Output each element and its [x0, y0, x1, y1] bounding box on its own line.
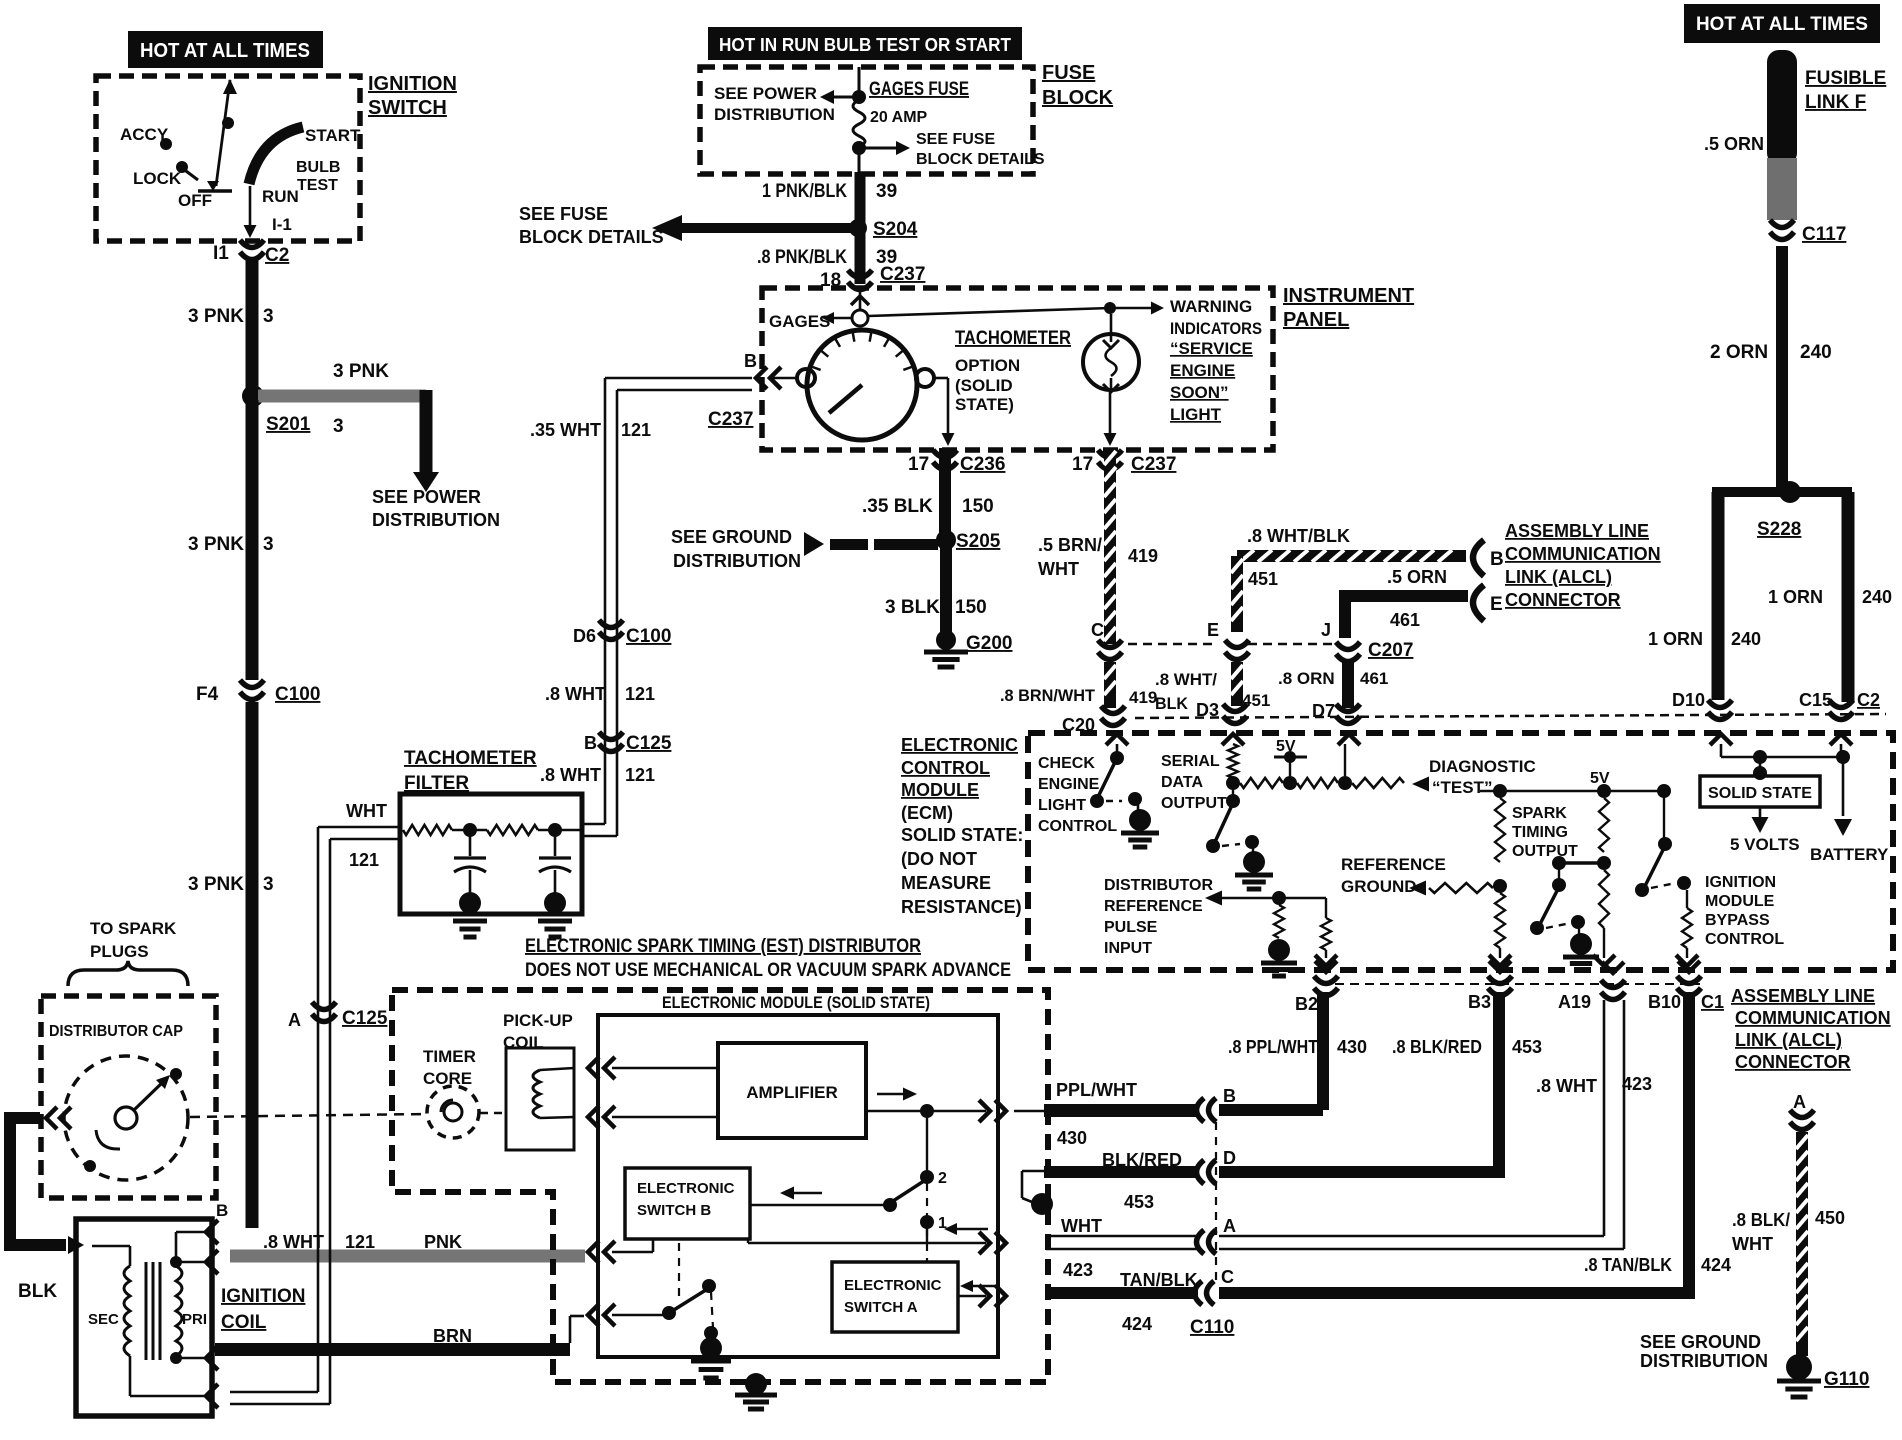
splice S228 bar: [1712, 487, 1852, 497]
connector C C110: [1195, 1281, 1203, 1305]
wire BLK high tension lead: [10, 1118, 66, 1245]
svg-text:3: 3: [263, 874, 274, 895]
svg-text:3: 3: [333, 416, 344, 437]
switch 1 dot: [920, 1215, 934, 1229]
distributor cap circle: [64, 1056, 188, 1180]
svg-text:39: 39: [876, 181, 897, 202]
svg-text:B: B: [584, 733, 597, 753]
svg-text:CONNECTOR: CONNECTOR: [1735, 1052, 1851, 1072]
coil terminal 2: [206, 1250, 218, 1274]
svg-text:I1: I1: [213, 243, 229, 264]
wire .8 BLK/WHT hatched: [1796, 1132, 1808, 1356]
svg-text:121: 121: [625, 684, 655, 704]
module input arrows BRN: [588, 1304, 599, 1326]
svg-text:BLK: BLK: [1155, 694, 1189, 713]
fuse node top: [852, 90, 866, 104]
pickup connector arrows bottom: [588, 1106, 599, 1128]
switch B arrow: [790, 1192, 822, 1195]
svg-text:WHT: WHT: [1732, 1234, 1773, 1254]
svg-text:D: D: [1223, 1148, 1236, 1168]
svg-text:A: A: [1223, 1216, 1236, 1236]
serial data ground: [1252, 848, 1254, 852]
ECM bottom connector dashed line: [1335, 983, 1700, 985]
filter ground dot 2: [544, 892, 566, 914]
svg-text:S228: S228: [1757, 519, 1801, 540]
svg-text:240: 240: [1800, 342, 1832, 363]
svg-text:121: 121: [625, 765, 655, 785]
C110 dashed line: [1215, 1122, 1217, 1284]
warning arrow: [1110, 307, 1152, 310]
svg-text:BATTERY: BATTERY: [1810, 845, 1889, 864]
cap contact dot lower: [84, 1160, 96, 1172]
svg-text:121: 121: [349, 850, 379, 870]
svg-text:.5 BRN/: .5 BRN/: [1038, 535, 1102, 555]
svg-text:(DO NOT: (DO NOT: [901, 849, 977, 869]
svg-text:PULSE: PULSE: [1104, 919, 1158, 936]
svg-text:B: B: [216, 1201, 228, 1220]
filter ground dot 1: [459, 892, 481, 914]
ECM pin B2 riser: [1325, 898, 1327, 918]
warning node dot: [1104, 302, 1116, 314]
instrument panel box: [762, 288, 1273, 450]
svg-text:OFF: OFF: [178, 191, 212, 210]
ECM box: [1028, 733, 1893, 970]
svg-text:CONTROL: CONTROL: [901, 758, 990, 778]
svg-text:BLOCK DETAILS: BLOCK DETAILS: [519, 227, 664, 247]
ELECTRONIC SWITCH A box: [832, 1262, 958, 1332]
wire 3 PNK from ignition switch: [246, 258, 259, 392]
svg-text:C110: C110: [1190, 1317, 1234, 1338]
svg-text:OUTPUT: OUTPUT: [1512, 843, 1578, 860]
svg-text:1 ORN: 1 ORN: [1768, 587, 1823, 607]
svg-text:HOT IN RUN BULB TEST OR START: HOT IN RUN BULB TEST OR START: [719, 35, 1011, 55]
svg-text:FUSIBLE: FUSIBLE: [1805, 68, 1886, 89]
AMPLIFIER box: [718, 1043, 866, 1138]
svg-text:.8 ORN: .8 ORN: [1278, 669, 1335, 688]
svg-text:STATE): STATE): [955, 395, 1014, 414]
coil terminal 4: [206, 1384, 218, 1408]
svg-text:3: 3: [263, 534, 274, 555]
service engine soon bulb: [1083, 334, 1139, 390]
EST case ground: [745, 1373, 767, 1395]
timer core symbol: [427, 1086, 479, 1138]
distributor cap box: [41, 996, 216, 1198]
wire PNK (speckled): [230, 1250, 585, 1263]
svg-text:C: C: [1221, 1267, 1234, 1287]
svg-text:TO SPARK: TO SPARK: [90, 919, 177, 938]
module output arrows WHT: [979, 1232, 990, 1254]
svg-text:SWITCH B: SWITCH B: [637, 1202, 711, 1219]
svg-text:CONNECTOR: CONNECTOR: [1505, 590, 1621, 610]
svg-text:C2: C2: [265, 245, 289, 266]
svg-text:SWITCH A: SWITCH A: [844, 1299, 918, 1316]
check engine light switch: [1097, 758, 1117, 799]
svg-text:423: 423: [1063, 1260, 1093, 1280]
svg-text:SEE POWER: SEE POWER: [372, 487, 481, 507]
svg-text:G200: G200: [966, 633, 1012, 654]
svg-text:INDICATORS: INDICATORS: [1170, 319, 1262, 338]
svg-text:COIL: COIL: [221, 1312, 267, 1333]
svg-text:430: 430: [1337, 1037, 1367, 1057]
svg-text:CHECK: CHECK: [1038, 755, 1095, 772]
svg-text:E: E: [1207, 620, 1219, 640]
svg-text:SEE FUSE: SEE FUSE: [916, 131, 995, 148]
svg-text:3: 3: [263, 306, 274, 327]
wire 3 PNK branch to power distribution: [258, 390, 426, 403]
svg-text:SOLID STATE: SOLID STATE: [1708, 785, 1812, 802]
svg-text:.5 ORN: .5 ORN: [1387, 567, 1447, 587]
svg-text:REFERENCE: REFERENCE: [1341, 855, 1446, 874]
svg-text:ASSEMBLY LINE: ASSEMBLY LINE: [1505, 521, 1649, 541]
svg-text:3 BLK: 3 BLK: [885, 597, 940, 618]
svg-text:DISTRIBUTION: DISTRIBUTION: [372, 510, 500, 530]
svg-text:B3: B3: [1468, 992, 1491, 1012]
ignition coil box: [76, 1219, 212, 1416]
coil SEC winding: [124, 1266, 130, 1356]
serial data switch: [1226, 794, 1240, 808]
svg-text:17: 17: [1072, 454, 1093, 475]
spark timing switch: [1559, 861, 1604, 865]
svg-text:“TEST”: “TEST”: [1432, 778, 1492, 797]
ELECTRONIC SWITCH B box: [625, 1168, 750, 1239]
amplifier input lines: [612, 1067, 718, 1070]
svg-text:A19: A19: [1558, 992, 1591, 1012]
ground G200: [936, 630, 956, 650]
ECM connector row dashed line: [1135, 714, 1886, 718]
svg-text:C237: C237: [1131, 454, 1176, 475]
svg-text:.8 PNK/BLK: .8 PNK/BLK: [757, 247, 847, 268]
svg-text:RESISTANCE): RESISTANCE): [901, 897, 1022, 917]
WHT line in module: [747, 1239, 749, 1243]
BRN line to ground switch: [612, 1314, 664, 1317]
svg-text:3 PNK: 3 PNK: [333, 361, 389, 382]
wire WHT double: [1046, 1235, 1198, 1238]
ignition switch box: [96, 76, 360, 241]
svg-text:450: 450: [1815, 1208, 1845, 1228]
wire 1 ORN right: [1842, 492, 1855, 702]
svg-text:COMMUNICATION: COMMUNICATION: [1735, 1008, 1891, 1028]
wire 1 ORN left: [1712, 492, 1725, 700]
svg-text:A: A: [1793, 1092, 1806, 1112]
svg-text:MODULE: MODULE: [1705, 893, 1775, 910]
svg-text:TACHOMETER: TACHOMETER: [955, 328, 1071, 349]
wire .35 BLK: [939, 448, 951, 538]
tachometer filter box: [400, 794, 582, 914]
svg-text:121: 121: [345, 1232, 375, 1252]
wire BRN thick: [215, 1343, 570, 1356]
svg-text:424: 424: [1701, 1255, 1731, 1275]
filter node 1: [463, 823, 477, 837]
wire .8 BLK/RED to B3: [1219, 1166, 1505, 1178]
see ground arrow: [804, 532, 824, 556]
svg-text:5V: 5V: [1590, 770, 1610, 787]
svg-text:IGNITION: IGNITION: [368, 73, 457, 95]
svg-text:PLUGS: PLUGS: [90, 942, 149, 961]
connector C117: [1770, 220, 1794, 228]
svg-text:DATA: DATA: [1161, 774, 1204, 791]
svg-text:SOON”: SOON”: [1170, 383, 1229, 402]
svg-text:IGNITION: IGNITION: [1705, 874, 1776, 891]
svg-text:ELECTRONIC: ELECTRONIC: [637, 1180, 735, 1197]
gauge right boss: [916, 369, 934, 387]
wire BLK/RED: [1044, 1166, 1198, 1178]
svg-text:SOLID STATE:: SOLID STATE:: [901, 825, 1023, 845]
EST distributor box: [392, 990, 1048, 1382]
svg-text:(ECM): (ECM): [901, 803, 953, 823]
svg-text:240: 240: [1862, 587, 1892, 607]
wire .8 TAN/BLK to B10: [1219, 1287, 1695, 1299]
coil PRI winding: [176, 1266, 182, 1356]
svg-text:DOES NOT USE MECHANICAL OR VAC: DOES NOT USE MECHANICAL OR VACUUM SPARK …: [525, 960, 1011, 981]
svg-text:121: 121: [621, 420, 651, 440]
svg-text:B: B: [1490, 549, 1504, 570]
svg-text:.8 PPL/WHT: .8 PPL/WHT: [1228, 1037, 1318, 1057]
svg-text:SEE GROUND: SEE GROUND: [671, 527, 792, 547]
svg-text:C236: C236: [960, 454, 1005, 475]
wire WHT 121 filter left leg: [318, 826, 400, 829]
svg-text:.8 WHT/BLK: .8 WHT/BLK: [1247, 526, 1350, 546]
svg-text:.8 TAN/BLK: .8 TAN/BLK: [1584, 1255, 1672, 1275]
svg-text:CONTROL: CONTROL: [1038, 818, 1117, 835]
coil terminal 3: [206, 1346, 218, 1370]
svg-text:D10: D10: [1672, 690, 1705, 710]
svg-text:423: 423: [1622, 1074, 1652, 1094]
splice S204: [849, 219, 867, 237]
rotor: [115, 1107, 137, 1129]
svg-text:C237: C237: [708, 409, 753, 430]
5V spark line: [1480, 790, 1664, 793]
wire .8 WHT to A19: [1219, 1235, 1604, 1238]
svg-text:C237: C237: [880, 264, 925, 285]
wire .35 WHT 121 from tach to filter: [605, 377, 752, 380]
wire TAN/BLK: [1049, 1287, 1198, 1299]
fuse block box: [700, 67, 1033, 174]
fuse feed arrow left: [832, 96, 858, 99]
svg-text:BLOCK DETAILS: BLOCK DETAILS: [916, 151, 1045, 168]
switch blade to switch B: [890, 1179, 927, 1203]
svg-text:419: 419: [1129, 688, 1157, 707]
svg-text:.5 ORN: .5 ORN: [1704, 134, 1764, 154]
svg-text:HOT AT ALL TIMES: HOT AT ALL TIMES: [1696, 14, 1868, 35]
svg-text:C1: C1: [1701, 992, 1724, 1012]
dashed line timer core to pickup: [480, 1112, 506, 1115]
svg-text:BYPASS: BYPASS: [1705, 912, 1770, 929]
distributor reference pulse arrow: [1205, 891, 1222, 906]
filter capacitor 1: [469, 830, 472, 856]
wire .5 ORN to ALCL E: [1351, 590, 1468, 602]
svg-text:BLK: BLK: [18, 1281, 57, 1302]
svg-text:TAN/BLK: TAN/BLK: [1120, 1270, 1198, 1290]
svg-text:INPUT: INPUT: [1104, 940, 1152, 957]
dashed line E to J: [1248, 643, 1332, 646]
svg-text:PRI: PRI: [182, 1311, 207, 1328]
wire .8 WHT/BLK hatched to ALCL B: [1237, 550, 1466, 562]
svg-text:S205: S205: [956, 531, 1001, 552]
header box HOT AT ALL TIMES (left): [128, 31, 323, 68]
wire PPL/WHT: [1014, 1110, 1044, 1113]
svg-text:LOCK: LOCK: [133, 169, 182, 188]
svg-text:SWITCH: SWITCH: [368, 97, 447, 119]
svg-text:SEE FUSE: SEE FUSE: [519, 204, 608, 224]
ECM pin D7 riser: [1338, 734, 1360, 745]
pickup connector arrows top: [588, 1057, 599, 1079]
ALCL pin B bracket: [1473, 540, 1484, 576]
ignition switch RUN arrow: [249, 186, 252, 230]
pick-up coil box: [506, 1048, 574, 1150]
5 volts arrow: [1759, 807, 1762, 818]
svg-text:C100: C100: [626, 626, 671, 647]
svg-text:MEASURE: MEASURE: [901, 873, 991, 893]
svg-text:RUN: RUN: [262, 187, 299, 206]
svg-text:GROUND: GROUND: [1341, 877, 1417, 896]
connector C207: [1336, 642, 1360, 650]
svg-text:LINK (ALCL): LINK (ALCL): [1735, 1030, 1842, 1050]
ECM pin D3 riser: [1222, 734, 1244, 745]
svg-text:419: 419: [1128, 546, 1158, 566]
distributor reference ground branch: [1274, 905, 1284, 938]
fuse wire bottom: [858, 148, 861, 172]
svg-text:F4: F4: [196, 684, 219, 705]
wire .8 ORN to D7: [1342, 662, 1354, 708]
svg-text:OUTPUT: OUTPUT: [1161, 795, 1227, 812]
dashed line C to E: [1128, 643, 1216, 646]
switch 2 link: [926, 1111, 928, 1172]
svg-text:150: 150: [962, 496, 994, 517]
svg-text:DISTRIBUTOR: DISTRIBUTOR: [1104, 877, 1213, 894]
svg-text:START: START: [305, 126, 361, 145]
svg-text:WARNING: WARNING: [1170, 297, 1252, 316]
module input arrows PNK: [588, 1241, 599, 1263]
module output arrows TAN/BLK: [979, 1285, 990, 1307]
ground switch blade: [669, 1288, 709, 1313]
solid state feed: [1759, 757, 1762, 770]
wire 3 PNK down to ignition coil: [246, 702, 259, 1228]
svg-text:D6: D6: [573, 626, 596, 646]
ignition switch common pole arm: [216, 80, 230, 186]
svg-text:SEE POWER: SEE POWER: [714, 84, 817, 103]
svg-text:TACHOMETER: TACHOMETER: [404, 748, 537, 769]
svg-text:REFERENCE: REFERENCE: [1104, 898, 1203, 915]
svg-text:424: 424: [1122, 1314, 1152, 1334]
tach left lead: [768, 377, 797, 380]
svg-text:1 PNK/BLK: 1 PNK/BLK: [762, 181, 847, 202]
panel feed node: [852, 310, 868, 326]
svg-text:(SOLID: (SOLID: [955, 376, 1013, 395]
svg-text:ENGINE: ENGINE: [1038, 776, 1100, 793]
spark timing switch ground: [1578, 928, 1580, 934]
svg-text:PANEL: PANEL: [1283, 309, 1349, 331]
svg-text:A: A: [288, 1010, 301, 1030]
module output arrows PPL/WHT: [979, 1100, 990, 1122]
svg-text:B10: B10: [1648, 992, 1681, 1012]
svg-text:DISTRIBUTOR CAP: DISTRIBUTOR CAP: [49, 1023, 183, 1040]
svg-text:DIAGNOSTIC: DIAGNOSTIC: [1429, 757, 1536, 776]
svg-text:WHT: WHT: [1061, 1216, 1102, 1236]
svg-text:453: 453: [1124, 1192, 1154, 1212]
svg-text:PPL/WHT: PPL/WHT: [1056, 1080, 1137, 1100]
svg-text:SEC: SEC: [88, 1311, 119, 1328]
svg-text:.8 BRN/WHT: .8 BRN/WHT: [1000, 686, 1096, 705]
gauge needle: [829, 385, 862, 413]
svg-text:SERIAL: SERIAL: [1161, 753, 1220, 770]
ALCL pin E bracket: [1473, 585, 1484, 621]
header box HOT AT ALL TIMES (right): [1684, 4, 1880, 43]
switch A output: [958, 1295, 986, 1298]
svg-text:ELECTRONIC SPARK TIMING (EST): ELECTRONIC SPARK TIMING (EST) DISTRIBUTO…: [525, 936, 921, 957]
SOLID STATE box: [1700, 776, 1820, 807]
svg-text:C207: C207: [1368, 640, 1413, 661]
PNK into switch B: [612, 1251, 653, 1254]
svg-text:FILTER: FILTER: [404, 773, 469, 794]
svg-text:LINK (ALCL): LINK (ALCL): [1505, 567, 1612, 587]
svg-text:MODULE: MODULE: [901, 780, 979, 800]
svg-text:COMMUNICATION: COMMUNICATION: [1505, 544, 1661, 564]
svg-text:.8 WHT: .8 WHT: [545, 684, 606, 704]
filter ground 2: [538, 919, 572, 924]
filter capacitor 2: [554, 830, 557, 856]
svg-text:1 ORN: 1 ORN: [1648, 629, 1703, 649]
svg-text:E: E: [1490, 594, 1503, 615]
gages fuse element: [853, 100, 865, 146]
svg-text:3 PNK: 3 PNK: [188, 306, 244, 327]
fuse wire top: [858, 67, 861, 92]
svg-text:GAGES: GAGES: [769, 312, 830, 331]
header box HOT IN RUN BULB TEST OR START: [708, 27, 1022, 60]
check engine ground: [1137, 804, 1140, 810]
svg-text:461: 461: [1390, 610, 1420, 630]
svg-text:C125: C125: [626, 733, 672, 754]
svg-text:I-1: I-1: [272, 215, 292, 234]
tach right lead: [934, 377, 948, 380]
wire 3 PNK down to C100: [246, 400, 259, 680]
svg-text:451: 451: [1248, 569, 1278, 589]
connector B2: [1315, 961, 1337, 972]
5V to A19 branch: [1599, 798, 1609, 852]
svg-text:WHT: WHT: [346, 801, 387, 821]
connector B10: [1678, 961, 1700, 972]
svg-text:B: B: [1223, 1086, 1236, 1106]
wire 3 BLK: [940, 540, 952, 634]
svg-text:CONTROL: CONTROL: [1705, 931, 1784, 948]
svg-text:430: 430: [1057, 1128, 1087, 1148]
svg-text:G110: G110: [1824, 1369, 1869, 1390]
brace over distributor cap: [68, 961, 188, 986]
coil terminal B top: [206, 1220, 218, 1244]
svg-text:INSTRUMENT: INSTRUMENT: [1283, 285, 1414, 307]
ignition module bypass branch: [1663, 791, 1665, 840]
svg-text:GAGES FUSE: GAGES FUSE: [869, 79, 969, 100]
svg-text:.35 BLK: .35 BLK: [862, 496, 933, 517]
svg-text:3 PNK: 3 PNK: [188, 534, 244, 555]
svg-text:B: B: [744, 351, 757, 371]
coil core: [145, 1262, 148, 1360]
svg-text:LIGHT: LIGHT: [1038, 797, 1086, 814]
ignition switch START arc: [249, 127, 303, 184]
svg-text:5 VOLTS: 5 VOLTS: [1730, 835, 1800, 854]
svg-text:3 PNK: 3 PNK: [188, 874, 244, 895]
warning indicators line: [868, 308, 1110, 316]
coil internal wiring: [175, 1232, 178, 1266]
svg-text:FUSE: FUSE: [1042, 62, 1095, 84]
see fuse details arrow right: [863, 147, 898, 150]
svg-text:C15: C15: [1799, 690, 1832, 710]
svg-text:17: 17: [908, 454, 929, 475]
svg-text:HOT AT ALL TIMES: HOT AT ALL TIMES: [140, 40, 310, 62]
filter ground 1: [453, 919, 487, 924]
fusible link F: [1767, 50, 1797, 165]
svg-text:B2: B2: [1295, 994, 1318, 1014]
svg-text:AMPLIFIER: AMPLIFIER: [746, 1083, 838, 1102]
